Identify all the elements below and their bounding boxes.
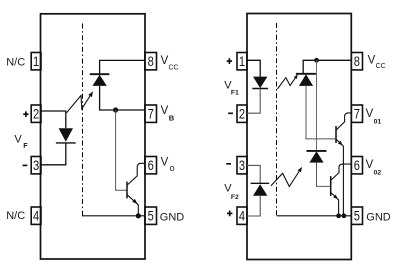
svg-text:N/C: N/C <box>6 210 25 222</box>
svg-text:V: V <box>161 55 169 67</box>
svg-text:CC: CC <box>169 64 179 71</box>
svg-text:2: 2 <box>33 106 39 121</box>
svg-text:B: B <box>169 113 175 122</box>
svg-text:V: V <box>161 105 169 117</box>
svg-text:2: 2 <box>239 106 245 121</box>
svg-text:N/C: N/C <box>6 57 25 69</box>
svg-text:V: V <box>161 156 169 168</box>
svg-text:1: 1 <box>33 54 39 69</box>
svg-text:GND: GND <box>160 211 185 223</box>
svg-text:V: V <box>368 55 376 67</box>
svg-text:F: F <box>23 141 28 150</box>
svg-text:7: 7 <box>148 106 154 121</box>
svg-text:o: o <box>170 163 175 173</box>
svg-text:4: 4 <box>33 208 40 223</box>
svg-text:8: 8 <box>148 54 154 69</box>
svg-text:01: 01 <box>374 119 382 126</box>
svg-text:8: 8 <box>354 54 360 69</box>
svg-text:V: V <box>366 108 374 120</box>
svg-text:F1: F1 <box>231 90 239 97</box>
svg-text:6: 6 <box>148 158 154 173</box>
svg-text:6: 6 <box>354 158 360 173</box>
svg-text:CC: CC <box>376 63 386 70</box>
svg-text:4: 4 <box>239 208 246 223</box>
svg-text:V: V <box>224 183 232 195</box>
svg-text:V: V <box>366 159 374 171</box>
svg-text:02: 02 <box>374 169 382 176</box>
svg-text:GND: GND <box>366 211 391 223</box>
svg-text:3: 3 <box>239 158 245 173</box>
svg-text:V: V <box>14 134 22 146</box>
svg-text:3: 3 <box>33 158 39 173</box>
svg-text:F2: F2 <box>231 194 239 201</box>
svg-text:5: 5 <box>354 208 360 223</box>
svg-text:1: 1 <box>239 54 245 69</box>
svg-text:5: 5 <box>148 208 154 223</box>
svg-text:7: 7 <box>354 106 360 121</box>
